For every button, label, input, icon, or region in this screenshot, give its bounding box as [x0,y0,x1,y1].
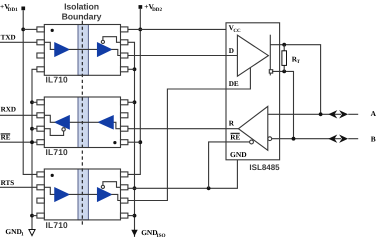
isolation boundary dashed line [81,21,83,228]
IL710 U1 pin1 marker dot [51,29,54,32]
junction A line [319,112,323,116]
svg-text:GND: GND [5,227,21,236]
IL710 U1 pin5 right [121,67,128,72]
resistor RT leads [283,45,285,51]
IL710 U3 input buffer triangle [55,188,69,201]
IL710 U3 pin1 left [37,172,44,177]
IL710 U2 barrier crossing wire [69,121,98,123]
wire GND_ISO rail [128,42,135,230]
IL710 U3 output wire to pin6 [111,194,120,200]
junction GND_ISO rail to IL710#2 right pin1 [133,100,137,104]
IL710 U2 pin left row2 [37,113,44,118]
IL710 U2 output wire to left pin2 [44,115,55,122]
IL710 U2 pin left row1 [37,100,44,105]
wire GND1 rail [32,69,37,229]
svg-text:ISO: ISO [157,233,166,239]
IL710 U1 pin3 left [37,53,44,58]
wire receiver input from A line [268,113,341,115]
junction GND1 rail to IL710#3 pin4 [30,214,34,218]
+VDD2 power terminal [139,5,143,9]
svg-text:GND: GND [230,150,247,159]
wire +VDD1 rail [23,10,37,174]
junction RT bottom [282,70,286,74]
IL710 U3 pin2 left [37,185,44,190]
svg-text:D: D [229,47,234,55]
svg-text:DE: DE [229,80,239,88]
wire DE net IL710#3 pin6 to ISL8485 DE [128,68,251,201]
ISL8485 driver output bar [269,35,271,76]
IL710 U1 pin1 left [37,27,44,32]
junction GND1 rail to RE wire [30,140,34,144]
wire +VDD2 rail [128,9,141,175]
IL710 U1 input jog wire [44,42,55,49]
IL710 U2 pin right row3 [121,126,128,131]
IL710 U1 pin4 left [37,67,44,72]
wire TXD [0,41,37,43]
junction GND1 rail to IL710#2 pin3 [30,127,34,131]
isolation barrier strip IC3 [78,169,88,220]
wire IL710#2 right pin1 to GND_ISO rail [128,101,135,103]
wire R net ISL8485 R output to IL710#2 right pin3 [128,128,239,130]
junction +VDD2 rail to Vcc wire [138,28,142,32]
wire GND1 rail to IL710#2 pin1 [32,101,37,103]
IL710 U2 output buffer triangle (points left) [55,116,69,129]
ISL8485 receiver triangle [238,106,267,150]
ISL8485 receiver inverting input bubble [268,137,272,141]
svg-text:RTS: RTS [1,179,15,187]
svg-text:RXD: RXD [1,106,16,114]
+VDD1 power terminal [21,7,25,11]
IL710 U3 input jog wire [44,187,55,194]
wire driver output Z to B line [272,71,294,138]
IL710 U1 pin6 right [121,53,128,58]
IL710 U1 output enable bubble [101,40,104,43]
svg-text:Boundary: Boundary [62,12,102,22]
IL710 U3 pin5 right [121,213,128,218]
wire IL710#2 right pin4 to +VDD2 rail [128,141,141,143]
wire driver output Y to A line [270,45,320,115]
junction GND_ISO rail to RE/GND wire [133,186,137,190]
svg-text:TXD: TXD [1,34,16,42]
IL710 U1 input buffer triangle [55,43,69,56]
A line bidirectional arrows [328,110,337,118]
isolation barrier strip IC2 [78,97,88,148]
junction +VDD2 rail to IL710#2 right pin4 [138,140,142,144]
svg-text:DD2: DD2 [152,7,162,13]
wire RTS [0,186,37,188]
junction GND_ISO rail to IL710#1 right pin5 [133,67,137,71]
ISL8485 driver inverted output square [269,70,272,73]
wire RXD [0,114,37,116]
IL710 U3 body [44,169,120,220]
IL710 U3 pin3 left [37,198,44,203]
svg-text:GND: GND [141,228,157,237]
IL710 U1 body [44,25,120,76]
junction GND_ISO rail to IL710#3 right pin5 [133,214,137,218]
B line bidirectional arrows [328,135,337,143]
ground symbol GND_ISO (filled arrow) [132,230,137,235]
IL710 U1 output wire to pin6 [111,49,120,55]
IL710 U2 body [44,97,120,148]
svg-text:RE: RE [1,134,11,142]
ISL8485 receiver enable bubble [250,140,254,144]
svg-text:Isolation: Isolation [64,1,99,11]
ground symbol GND1 (open arrow) [29,230,35,236]
svg-text:IL710: IL710 [46,75,69,85]
wire GND net IL710#3 pin7 to ISL8485 GND [128,160,238,189]
svg-text:ISL8485: ISL8485 [249,163,280,172]
IL710 U2 input buffer triangle (points left) [99,116,114,129]
svg-text:A: A [371,109,377,118]
IL710 U1 pin8 right [121,27,128,32]
wire Vcc net IL710#1 pin8 to ISL8485 Vcc [128,28,226,30]
ISL8485 driver triangle [237,35,268,76]
IL710 U2 enable wire to left pin3 [44,129,63,136]
svg-text:1: 1 [21,232,24,238]
IL710 U3 barrier crossing wire [69,193,98,195]
svg-text:IL710: IL710 [46,220,69,230]
IL710 U2 enable bubble [62,128,65,131]
IL710 U1 pin2 left [37,40,44,45]
IL710 U3 pin1 marker dot [51,174,54,177]
wire +VDD1 to IL710#1 pin1 [23,28,37,30]
IL710 U2 pin1 marker dot bottom-right [113,141,116,144]
wire B line [272,138,341,140]
isolation barrier strip IC1 [78,25,88,76]
ISL8485 U4 body [226,23,280,160]
wire IL710#1 right pin5 to GND_ISO rail [128,68,135,70]
IL710 U3 enable wire to pin7 [103,182,121,188]
IL710 U1 output buffer triangle [98,43,112,56]
IL710 U2 pin left row4 [37,140,44,145]
IL710 U1 pin7 right [121,40,128,45]
IL710 U3 output enable bubble [101,185,104,188]
IL710 U3 pin8 right [121,172,128,177]
IL710 U3 pin6 right [121,198,128,203]
junction RT top [282,43,286,47]
IL710 U3 pin7 right [121,185,128,190]
wire IL710#3 right pin5 to GND_ISO rail [128,215,135,217]
IL710 U2 pin left row3 [37,126,44,131]
IL710 U1 enable wire to pin7 [103,37,121,43]
junction B line [292,137,296,141]
IL710 U2 pin right row4 [121,140,128,145]
IL710 U2 pin right row2 [121,113,128,118]
IL710 U3 pin4 left [37,213,44,218]
wire GND1 rail to IL710#2 pin3 [32,128,37,130]
svg-text:CC: CC [233,28,241,34]
IL710 U3 output buffer triangle [98,188,112,201]
IL710 U2 input jog wire from right pin3 [113,122,120,128]
svg-text:RE: RE [230,133,240,141]
junction GND wire to RE rail [207,186,211,190]
wire RE input [0,141,37,143]
wire RE net rail down from ISL8485 RE [209,142,250,188]
junction GND1 rail to IL710#2 pin1 [30,100,34,104]
svg-text:B: B [371,134,376,143]
wire GND1 rail to IL710#3 pin4 [32,215,37,217]
junction +VDD1 to IL710#1 pin1 [21,28,25,32]
svg-text:IL710: IL710 [46,147,69,157]
svg-text:R: R [229,120,235,128]
IL710 U1 barrier crossing wire [69,48,98,50]
wire D net IL710#1 pin6 to ISL8485 D input [128,55,238,57]
resistor RT body [282,51,287,66]
IL710 U2 pin right row1 [121,100,128,105]
svg-text:DD1: DD1 [8,7,18,13]
